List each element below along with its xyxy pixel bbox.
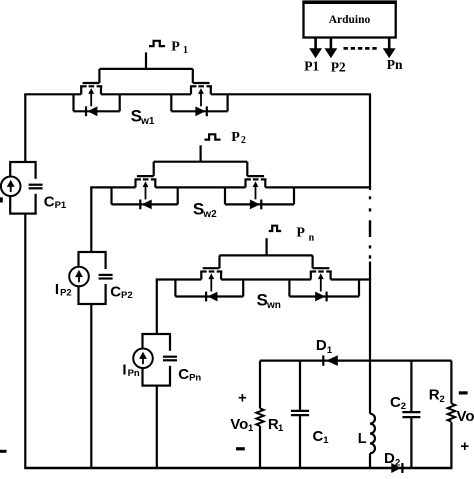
svg-text:1: 1 xyxy=(327,345,333,356)
svg-text:P: P xyxy=(231,130,240,145)
svg-text:I: I xyxy=(122,362,126,379)
svg-text:Pn: Pn xyxy=(128,368,140,379)
svg-text:D: D xyxy=(384,450,395,467)
svg-text:C: C xyxy=(313,428,324,445)
svg-text:w2: w2 xyxy=(202,209,217,220)
svg-text:P1: P1 xyxy=(55,200,67,211)
svg-text:Pn: Pn xyxy=(387,57,403,72)
svg-text:C: C xyxy=(110,283,121,300)
svg-text:1: 1 xyxy=(323,435,329,446)
svg-text:L: L xyxy=(358,431,367,447)
svg-text:Vo: Vo xyxy=(230,416,248,433)
svg-text:2: 2 xyxy=(401,401,406,412)
svg-text:C: C xyxy=(390,394,401,411)
svg-text:2: 2 xyxy=(440,394,445,405)
svg-text:P2: P2 xyxy=(331,59,346,74)
svg-text:P1: P1 xyxy=(304,58,319,73)
svg-text:I: I xyxy=(55,281,59,298)
svg-text:Pn: Pn xyxy=(189,373,201,384)
svg-text:C: C xyxy=(44,193,55,210)
svg-text:+: + xyxy=(238,390,247,407)
svg-text:+: + xyxy=(460,438,469,455)
svg-text:Vo: Vo xyxy=(457,408,474,425)
svg-text:2: 2 xyxy=(241,135,246,146)
svg-text:wn: wn xyxy=(266,300,281,311)
svg-text:1: 1 xyxy=(248,423,254,434)
svg-text:1: 1 xyxy=(278,423,284,434)
svg-text:P: P xyxy=(296,225,305,240)
svg-text:P: P xyxy=(171,40,180,55)
svg-text:2: 2 xyxy=(395,458,400,469)
svg-text:1: 1 xyxy=(183,45,188,56)
svg-text:P2: P2 xyxy=(121,290,133,301)
svg-text:D: D xyxy=(316,337,327,354)
svg-text:w1: w1 xyxy=(140,116,155,127)
svg-text:P2: P2 xyxy=(60,287,72,298)
svg-text:R: R xyxy=(429,387,440,404)
svg-text:n: n xyxy=(309,232,315,243)
svg-text:C: C xyxy=(178,366,189,383)
svg-text:Arduino: Arduino xyxy=(329,14,371,26)
